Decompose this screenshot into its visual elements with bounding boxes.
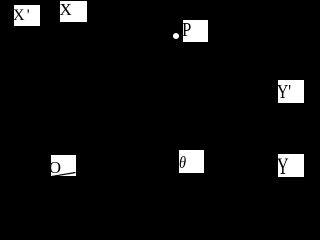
- point P marker (white dot): [173, 33, 179, 39]
- label box Y: [278, 154, 304, 177]
- label box O: [51, 155, 76, 177]
- label box X: [60, 1, 87, 22]
- label box theta: [179, 150, 204, 173]
- label box P: [183, 20, 208, 42]
- label box X': [14, 5, 40, 27]
- label box Y': [278, 80, 304, 103]
- line segment through O box: [51, 155, 76, 177]
